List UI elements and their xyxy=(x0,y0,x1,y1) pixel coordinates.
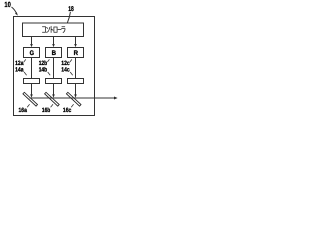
label 12b xyxy=(39,60,48,67)
laser source box R (12c) xyxy=(68,48,84,58)
laser source box B (12b) xyxy=(46,48,62,58)
label 10 xyxy=(4,0,10,9)
label 16c xyxy=(63,107,72,114)
combined output beam xyxy=(30,97,115,99)
svg-text:10: 10 xyxy=(4,0,10,9)
control signal arrow to B xyxy=(53,37,55,45)
label 14a xyxy=(15,66,24,73)
svg-text:16b: 16b xyxy=(42,107,51,114)
collimator lens 14c xyxy=(68,79,84,84)
collimator lens 14a xyxy=(24,79,40,84)
label 12a xyxy=(15,60,24,67)
label 12c xyxy=(61,60,70,67)
svg-text:18: 18 xyxy=(68,6,74,13)
outer box (device 10) xyxy=(14,17,95,116)
label 16b xyxy=(42,107,51,114)
beam line column R xyxy=(75,58,77,95)
leader arrow for 10 xyxy=(12,7,17,13)
label 14b xyxy=(39,66,48,73)
mirror 16a xyxy=(23,92,38,106)
controller label (katakana kontorora) xyxy=(42,26,65,32)
label 18 xyxy=(68,6,74,13)
svg-text:R: R xyxy=(74,50,79,57)
laser source box G (12a) xyxy=(24,48,40,58)
beam line column G xyxy=(31,58,33,95)
svg-text:G: G xyxy=(30,50,34,57)
svg-text:14a: 14a xyxy=(15,66,24,73)
svg-text:16a: 16a xyxy=(19,107,28,114)
svg-text:14c: 14c xyxy=(61,66,70,73)
mirror 16b xyxy=(45,92,60,106)
controller box U18 xyxy=(23,23,84,37)
leader line for 18 xyxy=(67,12,70,23)
label 14c xyxy=(61,66,70,73)
mirror 16c xyxy=(66,92,81,106)
control signal arrow to G xyxy=(31,37,33,45)
collimator lens 14b xyxy=(46,79,62,84)
svg-text:B: B xyxy=(52,50,57,57)
svg-text:14b: 14b xyxy=(39,66,48,73)
svg-text:16c: 16c xyxy=(63,107,72,114)
control signal arrow to R xyxy=(75,37,77,45)
label 16a xyxy=(19,107,28,114)
beam line column B xyxy=(53,58,55,95)
